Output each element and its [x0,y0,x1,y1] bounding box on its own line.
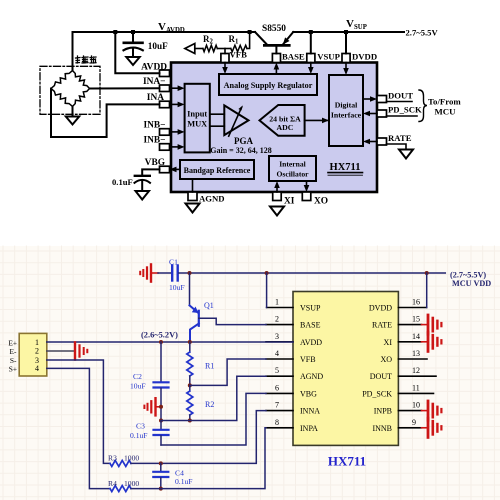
resistor R3 1000 [108,454,161,467]
op-amp PGA [210,105,271,155]
label sensor (chinese) [76,56,97,63]
label V SUP [346,18,367,31]
pin BASE [272,52,304,75]
chip body HX711 block [171,63,377,193]
transistor Q1 S8550 [190,273,214,342]
svg-text:6: 6 [275,383,279,392]
node junction C4 top [159,461,163,465]
block Bandgap Reference [180,160,254,179]
svg-text:XI: XI [284,197,295,207]
svg-text:VBG: VBG [145,158,166,168]
wire DVDD riser to pin16 [426,273,428,308]
svg-text:Input: Input [187,110,207,119]
pin DOUT [363,90,413,102]
svg-text:DOUT: DOUT [388,90,413,100]
capacitor 10uF [124,34,169,57]
pin VSUP [307,52,341,75]
pin 16 DVDD [369,298,427,313]
IC U1 HX711 chip body [293,292,398,469]
wire VSUP rail [293,31,404,33]
wire R4 run to pin8 INPA [161,428,266,489]
wire ADC to Digital Interface [305,118,329,124]
node junction AVDD rail/C2 [159,340,163,344]
svg-text:V: V [158,21,166,33]
svg-text:R2: R2 [205,400,214,409]
ground E- (red) [75,342,87,359]
pin INA [147,93,185,108]
svg-text:DVDD: DVDD [369,304,392,313]
ground bridge [66,117,79,125]
svg-text:MCU: MCU [435,107,457,117]
pin AGND [188,179,225,204]
node junction rail/VSUP [309,30,313,34]
svg-text:2.7~5.5V: 2.7~5.5V [406,28,439,38]
ground XI [270,207,284,216]
svg-text:VSUP: VSUP [317,52,340,62]
pin DVDD [342,52,377,76]
svg-text:E-: E- [10,347,18,356]
svg-text:DOUT: DOUT [370,372,392,381]
svg-text:(2.6~5.2V): (2.6~5.2V) [141,331,178,340]
svg-text:INNA: INNA [300,407,320,416]
ground RATE pin15 (red) [422,315,442,334]
brace To/From MCU [419,90,461,122]
svg-text:1: 1 [235,39,239,46]
wire S+ to R4 run [47,368,110,488]
svg-text:8: 8 [275,418,279,427]
svg-text:10uF: 10uF [130,382,146,391]
svg-text:MCU VDD: MCU VDD [452,279,491,288]
schematic sheet background [0,246,500,500]
svg-text:AVDD: AVDD [141,62,167,72]
svg-text:R4: R4 [108,479,117,488]
svg-text:1: 1 [275,298,279,307]
pin XI [273,181,295,207]
wire VAVDD rail [73,31,256,33]
wire VFB pin to divider [224,49,226,54]
wire S- to R3 run [47,360,110,463]
ground INNB pin9 (red) [422,418,442,437]
pin 11 PD_SCK [362,383,433,398]
label V AVDD [158,21,185,34]
svg-text:Oscillator: Oscillator [276,170,309,179]
ground C1 left (red) [140,264,158,281]
svg-text:INA−: INA− [143,77,166,87]
resistor R1 (top) [217,32,249,52]
svg-text:INB−: INB− [143,136,165,146]
wire DVDD pin drop [345,32,347,54]
svg-text:BASE: BASE [282,52,305,62]
pin 6 VBG [266,383,317,398]
svg-text:4: 4 [275,349,279,358]
svg-text:2: 2 [275,315,279,324]
wire AGND run to pin5 [161,376,266,420]
ADC block 24 bit sigma-delta [260,105,305,136]
svg-text:RATE: RATE [388,133,412,143]
label 2.7-5.5V MCU VDD [450,271,491,289]
resistor bridge arm bottom-left [51,89,73,107]
svg-text:1000: 1000 [124,479,139,488]
pin 8 INPA [266,418,318,433]
node junction rail/DVDD [344,30,348,34]
wire AVDD pin to rail [115,32,159,73]
ground INPB pin10 (red) [422,401,442,420]
svg-text:Internal: Internal [279,160,306,169]
svg-text:V: V [346,18,354,30]
svg-text:INNB: INNB [372,424,392,433]
wire Q1 base to pin2 [199,318,266,324]
svg-text:Gain = 32, 64, 128: Gain = 32, 64, 128 [210,146,271,155]
pin 13 XO [380,349,427,364]
svg-text:DVDD: DVDD [352,52,377,62]
svg-text:14: 14 [412,332,420,341]
svg-text:ADC: ADC [277,123,294,132]
wire bridge top feed [72,32,74,71]
ground 0.1uF [136,191,150,200]
ground AGND net (red) [144,398,160,415]
svg-text:3: 3 [275,332,279,341]
svg-text:PD_SCK: PD_SCK [362,389,392,398]
svg-text:1: 1 [35,338,39,347]
pin 7 INNA [266,401,320,416]
node junction C2/ground [159,405,163,409]
svg-text:INPB: INPB [374,407,392,416]
pin INA- [143,77,185,92]
capacitor C2 10uF [130,342,169,421]
node junction AGND run left [159,419,163,423]
svg-text:To/From: To/From [428,97,461,107]
ground RATE [399,150,413,159]
svg-text:10: 10 [412,401,420,410]
pin 5 AGND [266,366,323,381]
node junction R1/R2/VFB [188,383,192,387]
node junction C4 bottom [159,487,163,491]
pin 2 BASE [266,315,321,330]
pin 1 VSUP [267,298,321,313]
pin 14 XI [384,332,422,347]
svg-text:XO: XO [314,197,328,207]
svg-text:HX711: HX711 [330,162,361,173]
block Digital Interface [329,75,363,146]
pin 3 AVDD [266,332,322,347]
pin 15 RATE [372,315,422,330]
svg-text:XO: XO [380,355,392,364]
label HX711 [328,162,363,175]
ground AGND [186,204,200,213]
capacitor C1 10uF [158,258,185,293]
svg-text:4: 4 [35,364,39,373]
capacitor C4 0.1uF [153,463,192,488]
resistor R2 (top) with arrow [185,34,217,54]
svg-text:PD_SCK: PD_SCK [388,105,422,115]
wire R3 run to pin7 INNA [161,411,266,464]
pin XO [302,181,328,207]
svg-text:HX711: HX711 [328,454,366,469]
resistor R2 [187,385,215,420]
pin 4 VFB [266,349,316,364]
block Internal Oscillator [269,156,316,181]
svg-text:11: 11 [412,383,420,392]
svg-text:Interface: Interface [331,111,362,120]
wire VSUP top rail [179,272,446,274]
node junction R2 bottom [188,419,192,423]
pin VBG [145,158,180,173]
wire E- to ground [47,350,74,352]
svg-text:5: 5 [275,366,279,375]
block Input MUX [185,84,210,153]
resistor bridge arm bottom-right [73,89,90,107]
node junction rail/AVDD [113,30,117,34]
pin 10 INPB [374,401,422,416]
svg-text:VFB: VFB [300,355,316,364]
svg-text:C1: C1 [169,258,178,267]
svg-text:10uF: 10uF [169,283,185,292]
svg-text:Digital: Digital [335,101,358,110]
pin INB+ [143,136,184,151]
svg-text:VBG: VBG [300,389,317,398]
svg-text:R1: R1 [205,362,214,371]
svg-text:AVDD: AVDD [300,338,322,347]
svg-text:SUP: SUP [354,24,367,31]
wire VBG link C3 to pin6 [161,393,266,445]
svg-text:S8550: S8550 [262,24,286,34]
pin PD_SCK [363,105,422,118]
svg-text:AGND: AGND [199,194,225,204]
svg-text:0.1uF: 0.1uF [175,477,193,486]
svg-text:13: 13 [412,349,420,358]
svg-text:0.1uF: 0.1uF [112,177,133,187]
pin 9 INNB [372,418,421,433]
pin AVDD [141,62,169,76]
node junction AVDD rail/Q1 collector [188,340,192,344]
connector J1 [19,333,47,376]
svg-text:2: 2 [35,347,39,356]
svg-text:2: 2 [210,39,214,46]
svg-text:INPA: INPA [300,424,318,433]
svg-text:10uF: 10uF [148,41,168,51]
wire bridge bottom to ground [72,107,74,117]
svg-text:BASE: BASE [300,321,321,330]
svg-text:INA: INA [147,93,164,103]
svg-text:S+: S+ [9,365,17,374]
pin RATE [363,133,412,149]
svg-text:C3: C3 [136,422,145,431]
svg-text:Bandgap Reference: Bandgap Reference [184,166,251,175]
wire bridge right node to INA- [90,87,160,89]
resistor bridge arm top-left [51,71,73,89]
svg-text:15: 15 [412,315,420,324]
ground XI pin14 (red) [422,332,442,351]
wire VSUP riser to pin1 [266,273,268,308]
wire VFB link [190,359,266,385]
wire bridge left node to INA [51,89,160,138]
svg-text:INB−: INB− [143,121,165,131]
transistor Q S8550 [255,24,293,54]
node junction rail/VSUP riser [265,271,269,275]
svg-text:12: 12 [412,366,420,375]
svg-text:RATE: RATE [372,321,392,330]
wire MUX to PGA [210,114,225,126]
svg-text:AGND: AGND [300,372,323,381]
svg-text:0.1uF: 0.1uF [130,431,148,440]
wire E+ to AVDD rail [47,341,293,343]
pin VFB [221,50,247,75]
capacitor 0.1uF at VBG [112,169,160,190]
node junction rail/DVDD riser [425,271,429,275]
node junction rail/C10uF [131,30,135,34]
svg-text:PGA: PGA [234,136,253,146]
svg-text:16: 16 [412,298,420,307]
resistor R1 [187,342,215,385]
svg-text:7: 7 [275,401,279,410]
pin 12 DOUT [370,366,436,381]
node junction rail/Q1 [188,271,192,275]
svg-text:VSUP: VSUP [300,304,321,313]
svg-text:Analog Supply Regulator: Analog Supply Regulator [224,81,313,90]
sensor bridge box (dashed) [40,66,100,114]
svg-text:MUX: MUX [187,120,207,129]
capacitor C3 0.1uF [130,421,169,446]
block Analog Supply Regulator [219,74,317,95]
svg-text:Q1: Q1 [204,301,214,310]
svg-text:9: 9 [412,418,416,427]
resistor bridge arm top-right [73,71,90,89]
svg-text:C2: C2 [133,372,142,381]
node junction rail/R1 [248,30,252,34]
ground 10uF [126,57,139,65]
svg-text:1000: 1000 [124,454,139,463]
resistor R4 1000 [108,479,161,492]
svg-text:AVDD: AVDD [166,27,185,34]
pin INB- [143,121,184,136]
wire VSUP pin drop [310,32,312,54]
svg-text:XI: XI [384,338,393,347]
svg-text:R3: R3 [108,454,117,463]
